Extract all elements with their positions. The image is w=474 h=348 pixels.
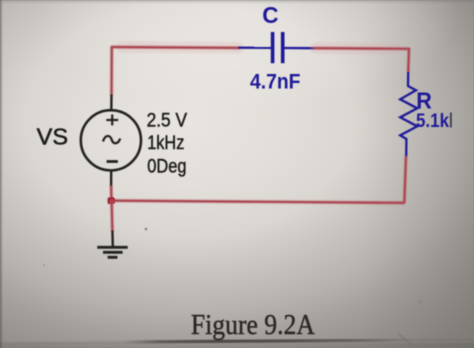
- wire: right rail, top corner down to resistor: [406, 48, 411, 73]
- junction node A: [108, 197, 115, 204]
- dust speck near ground: [145, 228, 148, 231]
- svg-text:5.1k: 5.1k: [416, 111, 449, 132]
- capacitor C1: [239, 32, 315, 63]
- minus sign: [107, 160, 118, 163]
- wire: top rail, left corner to capacitor: [111, 41, 240, 54]
- svg-text:Figure 9.2A: Figure 9.2A: [191, 309, 315, 341]
- wire: junction node down to ground lead: [109, 201, 114, 232]
- wire: source bottom pin to junction node: [109, 186, 114, 202]
- dust speck: [418, 300, 422, 304]
- plus sign: [106, 119, 118, 121]
- pin lead bottom: [110, 171, 112, 187]
- svg-text:4.7nF: 4.7nF: [250, 71, 301, 94]
- text cursor after 5.1k: [450, 113, 452, 128]
- wire: right rail, resistor to bottom-right corner: [404, 156, 406, 203]
- voltage source VS: [81, 95, 141, 187]
- wire: left rail, top corner down to source top pin: [109, 46, 114, 96]
- svg-text:R: R: [416, 88, 432, 114]
- svg-text:1kHz: 1kHz: [147, 132, 184, 154]
- wire: bottom rail, right corner to junction node: [111, 201, 405, 203]
- svg-text:VS: VS: [37, 123, 69, 149]
- svg-text:2.5 V: 2.5 V: [147, 109, 188, 131]
- svg-text:C: C: [262, 2, 278, 28]
- ground: [97, 231, 127, 258]
- sine symbol: [103, 136, 120, 143]
- wire: top rail, capacitor to top-right corner: [313, 42, 409, 55]
- svg-text:0Deg: 0Deg: [147, 155, 186, 177]
- hair scratch bottom right: [399, 334, 414, 346]
- dust speck left: [43, 264, 45, 266]
- body circle: [81, 110, 141, 170]
- resistor R1: [400, 72, 417, 157]
- pin lead top: [110, 95, 113, 112]
